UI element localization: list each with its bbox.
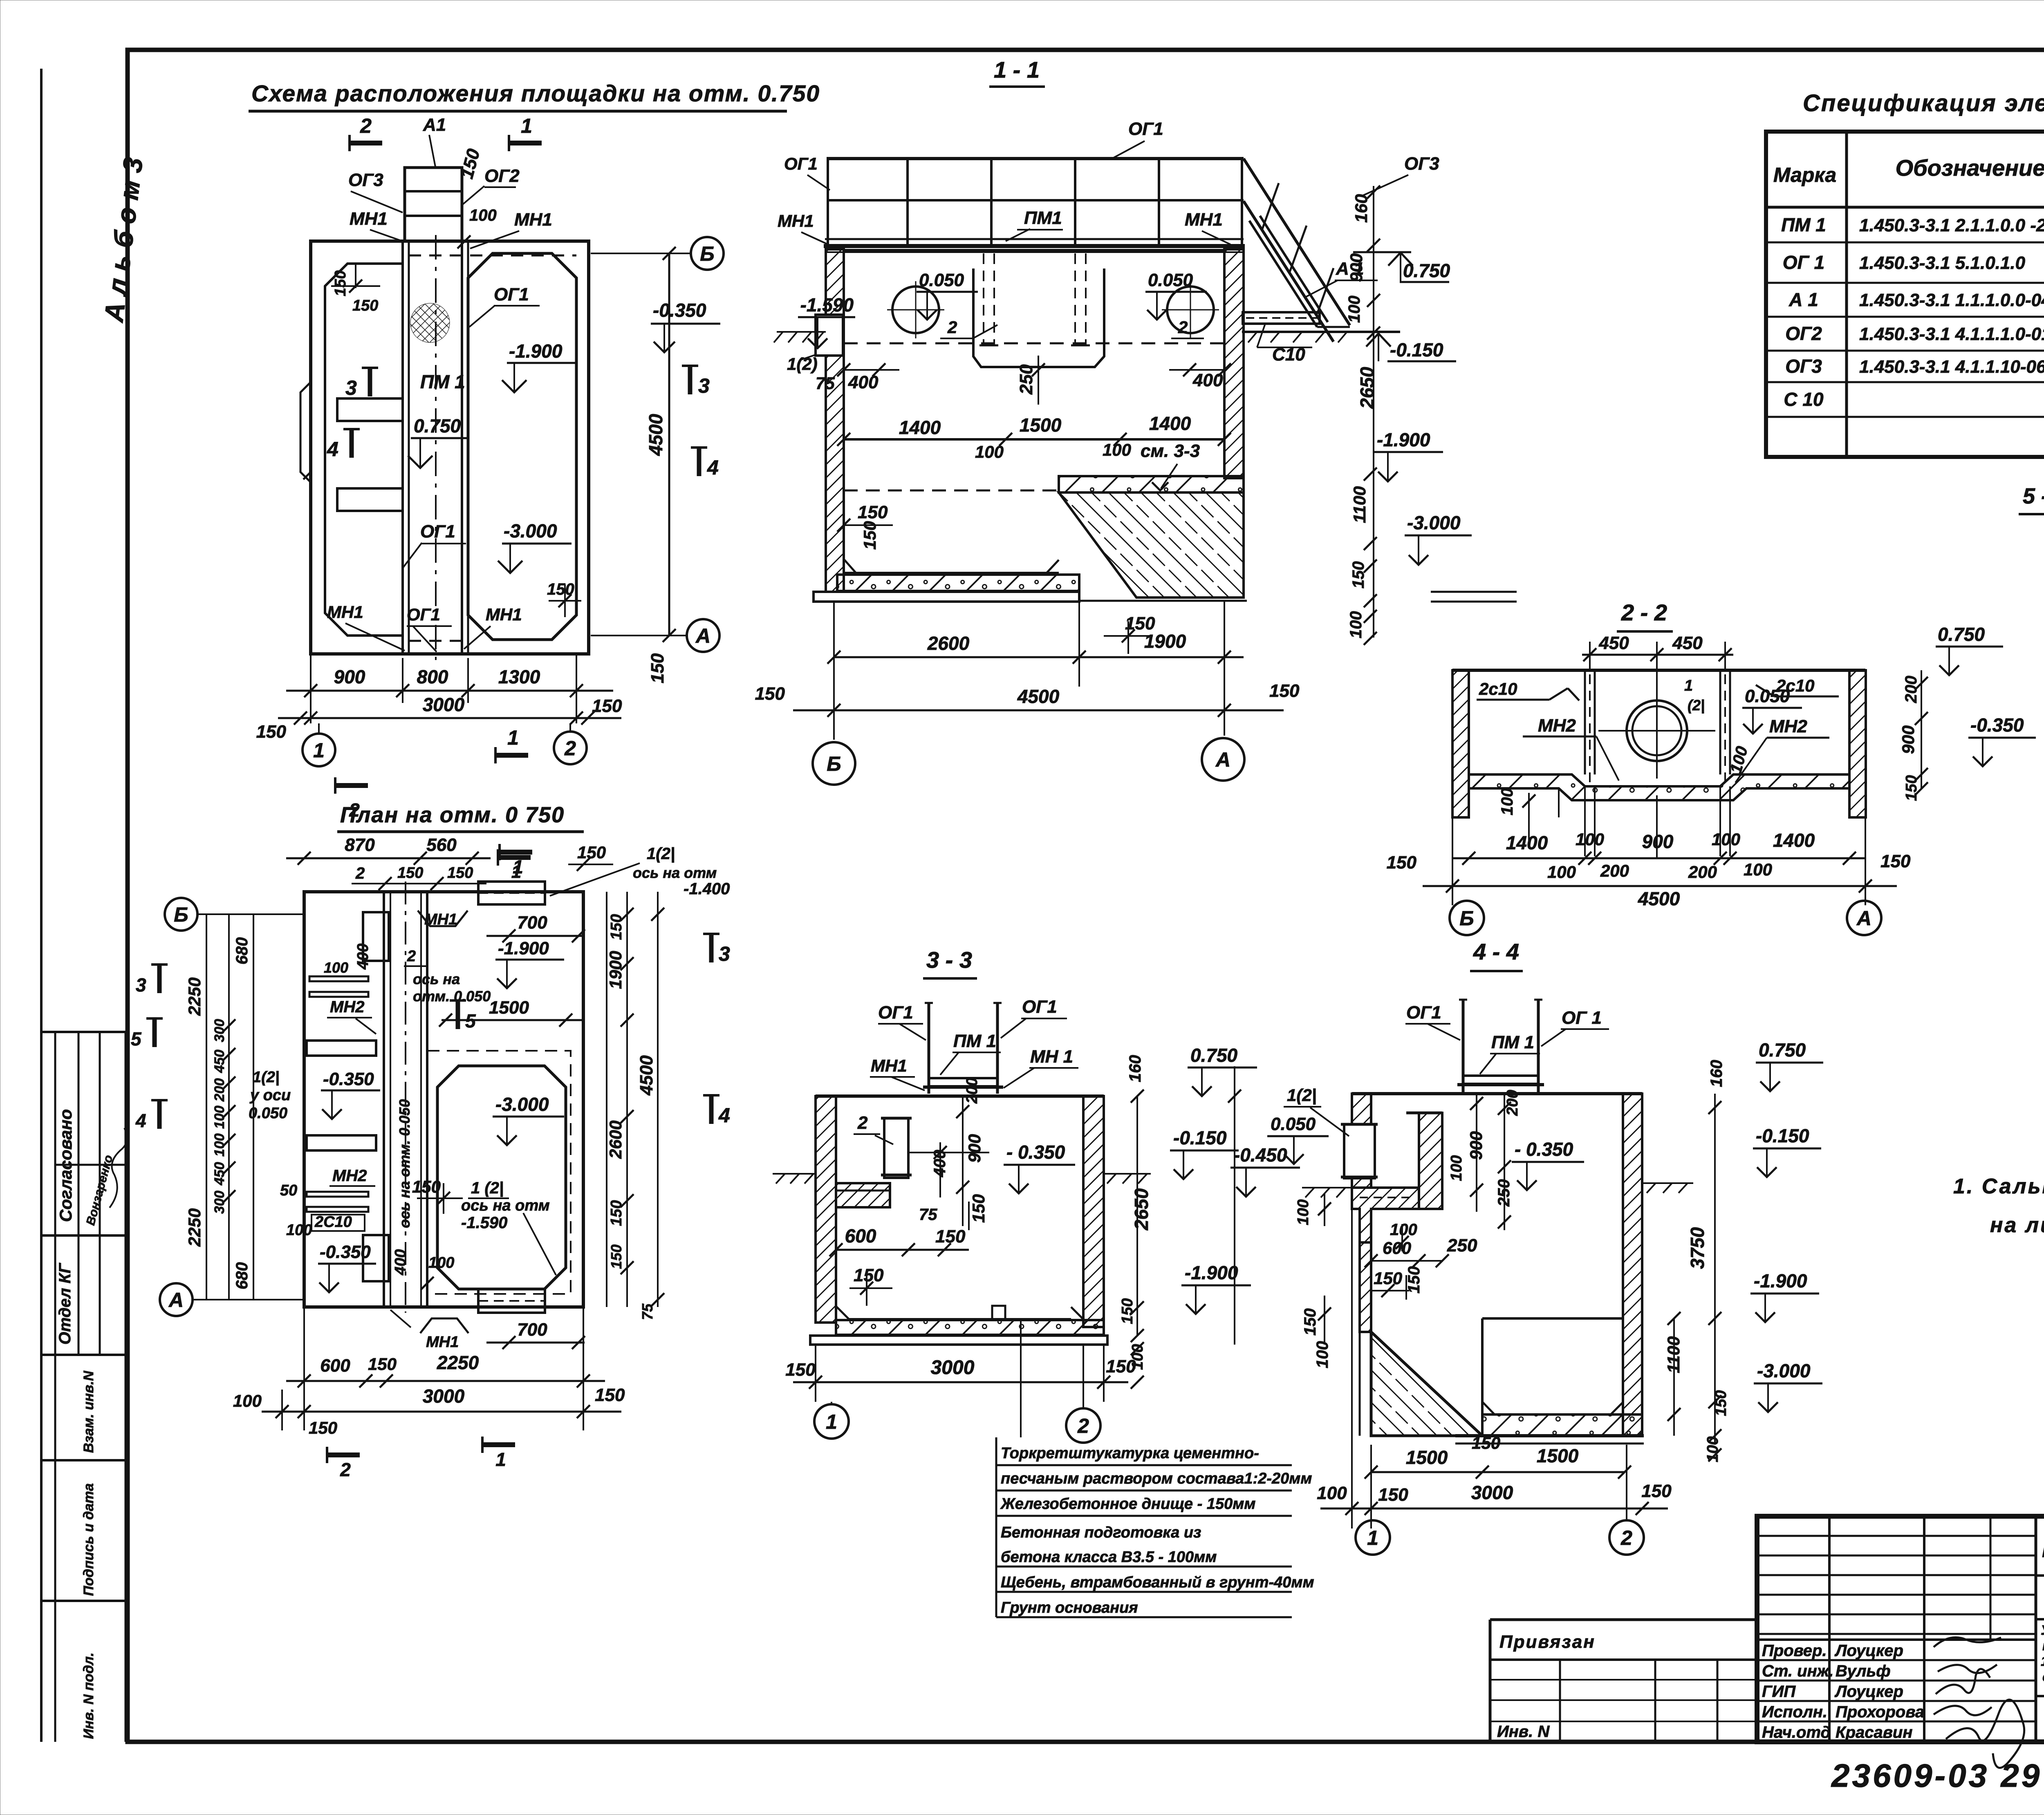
1-1 upper floor line (844, 438, 1224, 441)
svg-text:250: 250 (1495, 1179, 1513, 1207)
svg-text:100: 100 (1576, 830, 1604, 849)
plan top dashed platform edge (409, 255, 576, 257)
4-4 ground hatch left (1302, 1188, 1352, 1197)
plan horiz bars left pit (337, 398, 403, 421)
svg-text:см. 3-3: см. 3-3 (1141, 441, 1200, 461)
2-2 extension verticals to chain (1585, 786, 1730, 858)
3-3 right elevation chain (1234, 1066, 1235, 1345)
svg-text:А: А (695, 624, 710, 647)
svg-text:0.050: 0.050 (1148, 270, 1193, 290)
svg-text:0.050: 0.050 (1271, 1114, 1316, 1134)
svg-text:680: 680 (233, 937, 251, 965)
svg-text:3000: 3000 (1471, 1482, 1513, 1503)
title block right horizontals (2036, 1574, 2044, 1577)
svg-text:4500: 4500 (1017, 686, 1060, 707)
svg-text:800: 800 (417, 666, 448, 687)
svg-text:23609-03 29: 23609-03 29 (1831, 1757, 2042, 1794)
svg-text:4: 4 (707, 456, 719, 479)
svg-text:Привязан: Привязан (1499, 1632, 1596, 1652)
svg-text:100: 100 (428, 1254, 454, 1271)
bplan right chamber dashed offset (427, 1051, 571, 1294)
svg-text:1.450.3-3.1 5.1.0.1.0: 1.450.3-3.1 5.1.0.1.0 (1859, 253, 2026, 273)
plan bottom dim chain 2 (278, 717, 621, 719)
svg-text:-1.900: -1.900 (509, 340, 563, 362)
svg-text:300: 300 (212, 1191, 227, 1214)
1-1 railing posts (828, 159, 1242, 245)
svg-text:ОГ2: ОГ2 (484, 166, 520, 186)
svg-text:2: 2 (340, 1459, 351, 1480)
plan stair shaft walls (401, 241, 404, 654)
svg-text:1400: 1400 (1506, 832, 1548, 853)
svg-text:МН1: МН1 (778, 211, 814, 231)
bplan section mark 1 top (500, 844, 532, 877)
svg-text:150: 150 (447, 864, 473, 882)
svg-text:4: 4 (327, 438, 338, 461)
svg-text:Бетонная подготовка из: Бетонная подготовка из (1001, 1524, 1201, 1541)
svg-text:150: 150 (595, 1385, 625, 1405)
svg-text:0.750: 0.750 (1938, 624, 1985, 645)
svg-text:МН1: МН1 (514, 210, 552, 230)
svg-text:450: 450 (212, 1050, 227, 1073)
svg-text:ОГ 1: ОГ 1 (1783, 252, 1824, 273)
svg-text:250: 250 (1016, 364, 1036, 395)
title block staff rows (1757, 1660, 2036, 1721)
svg-text:900: 900 (1898, 725, 1918, 754)
3-3 pipe stub (884, 1118, 908, 1178)
ground hatch left of 1-1 (774, 332, 826, 342)
svg-text:1: 1 (511, 862, 521, 882)
4-4 plinth (1455, 1434, 1644, 1437)
svg-text:1(2|: 1(2| (1287, 1085, 1316, 1105)
svg-text:Подпись и дата: Подпись и дата (81, 1483, 96, 1596)
svg-text:100: 100 (233, 1391, 262, 1410)
4-4 axis circles (1356, 1520, 1390, 1555)
svg-text:1(2|: 1(2| (647, 845, 675, 863)
3-3 small stub on floor (992, 1306, 1005, 1320)
svg-text:-0.150: -0.150 (1390, 339, 1443, 360)
svg-text:бетона класса В3.5 - 100м: бетона класса В3.5 - 100мм (1001, 1549, 1217, 1566)
svg-text:100: 100 (324, 959, 348, 976)
bplan left pit items (363, 912, 389, 961)
svg-text:1900: 1900 (1144, 631, 1186, 652)
svg-text:2С10: 2С10 (314, 1213, 352, 1231)
svg-text:Б: Б (827, 752, 841, 775)
svg-text:150: 150 (755, 684, 785, 704)
1-1 center trough channels (973, 269, 1104, 367)
2-2 axis circles (1450, 901, 1484, 935)
svg-text:450: 450 (1672, 633, 1703, 653)
svg-text:МН2: МН2 (1538, 716, 1576, 736)
svg-text:ОГ1: ОГ1 (784, 154, 818, 173)
svg-text:ПМ1: ПМ1 (1024, 208, 1062, 228)
svg-text:150: 150 (592, 696, 622, 716)
svg-text:2: 2 (349, 799, 360, 821)
bplan bottom dim chain2 (262, 1411, 621, 1413)
svg-text:Грунт основания: Грунт основания (1001, 1599, 1138, 1616)
svg-text:- 0.350: - 0.350 (1006, 1141, 1065, 1163)
svg-text:МН2: МН2 (1769, 716, 1807, 736)
svg-text:680: 680 (233, 1262, 251, 1289)
plan right chamber chamfered (468, 253, 576, 640)
3-3 ground hatch left (773, 1174, 816, 1184)
2-2 pipe crosshair (1598, 670, 1715, 779)
svg-text:150: 150 (860, 521, 879, 550)
svg-text:ось на отм: ось на отм (633, 864, 717, 881)
bplan label МН1 bottom (420, 1318, 468, 1333)
svg-text:4: 4 (135, 1110, 146, 1131)
svg-text:150: 150 (577, 843, 606, 862)
svg-text:МН1: МН1 (871, 1056, 907, 1075)
paper edge left line (40, 69, 43, 1742)
svg-text:150: 150 (858, 502, 888, 522)
4-4 right wall (1623, 1094, 1642, 1436)
svg-text:4: 4 (718, 1104, 730, 1127)
bplan dim 700 top (486, 935, 585, 937)
svg-text:Обозначение: Обозначение (1896, 155, 2044, 181)
bplan label МН1 top w/ bracket (418, 911, 468, 926)
svg-text:150: 150 (368, 1354, 397, 1374)
svg-text:1: 1 (495, 1449, 506, 1470)
bplan right chamber chamfered (437, 1066, 566, 1289)
svg-text:100: 100 (1313, 1341, 1331, 1368)
svg-text:ПМ 1: ПМ 1 (1781, 214, 1826, 235)
svg-text:100: 100 (286, 1222, 312, 1239)
4-4 bottom dims (1371, 1471, 1625, 1473)
1-1 pipe circle left (892, 286, 939, 333)
svg-text:200: 200 (212, 1078, 227, 1102)
svg-text:ОГ1: ОГ1 (407, 605, 440, 624)
svg-text:МН1: МН1 (327, 602, 363, 622)
bplan shaft walls (383, 892, 385, 1307)
svg-text:100: 100 (1295, 1200, 1312, 1225)
svg-text:17тыс. м³/сут. самотечная пода: 17тыс. м³/сут. самотечная подача (2041, 1654, 2044, 1669)
section mark 1 (top) (509, 114, 542, 151)
3-3 left wall (816, 1096, 836, 1323)
svg-text:Б: Б (1459, 907, 1474, 930)
svg-text:150: 150 (1374, 1269, 1402, 1288)
svg-text:у оси: у оси (249, 1087, 291, 1104)
svg-text:1: 1 (1684, 677, 1693, 694)
svg-text:ось на отм: ось на отм (461, 1197, 550, 1214)
svg-text:1.450.3-3.1 4.1.1.1.0-01: 1.450.3-3.1 4.1.1.1.0-01 (1859, 324, 2044, 344)
svg-text:3: 3 (345, 376, 357, 399)
svg-text:900: 900 (1642, 831, 1674, 852)
bplan section marks bottom (327, 1447, 360, 1480)
svg-text:2600: 2600 (606, 1121, 625, 1159)
svg-text:700: 700 (517, 913, 547, 933)
svg-text:МН1: МН1 (424, 911, 457, 928)
plan shaft axis dash-dot (435, 235, 437, 660)
svg-text:200: 200 (1600, 861, 1629, 880)
svg-text:2250: 2250 (185, 1209, 204, 1247)
svg-text:ГИП: ГИП (1762, 1683, 1796, 1701)
4-4 railing posts (1462, 1000, 1465, 1094)
svg-text:сточных вод на фильтрацию: сточных вод на фильтрацию (2042, 1669, 2044, 1684)
svg-text:-0.350: -0.350 (653, 300, 706, 321)
axis circle А (687, 619, 719, 652)
bplan dim 700 bottom (486, 1342, 585, 1344)
3-3 right wall (1083, 1096, 1104, 1327)
svg-text:3000: 3000 (931, 1357, 975, 1379)
bplan mark 5 (450, 1000, 476, 1032)
svg-text:на листе 20: на листе 20 (1990, 1213, 2044, 1237)
bplan top protrusion МН (478, 882, 545, 904)
svg-text:А: А (1856, 907, 1871, 930)
svg-text:-3.000: -3.000 (504, 520, 557, 542)
svg-text:Лоуцкер: Лоуцкер (1834, 1683, 1903, 1701)
svg-text:1: 1 (507, 726, 519, 749)
svg-text:3: 3 (136, 974, 146, 996)
bplan right section marks 3,4 (703, 934, 730, 965)
svg-text:150: 150 (608, 1244, 625, 1269)
svg-text:100: 100 (1390, 1221, 1417, 1239)
svg-text:2: 2 (947, 318, 957, 337)
svg-text:150: 150 (1903, 775, 1920, 801)
svg-text:Торкретштукатурка цементно-: Торкретштукатурка цементно- (1001, 1445, 1259, 1462)
bplan axis circles left (165, 898, 197, 931)
svg-text:1(2|: 1(2| (253, 1069, 280, 1086)
svg-text:200: 200 (1504, 1090, 1521, 1116)
bplan section mark 1 small top (498, 849, 531, 882)
svg-text:75: 75 (816, 374, 835, 393)
1-1 pipe circle right (1167, 286, 1214, 333)
svg-text:4 - 4: 4 - 4 (1473, 939, 1519, 965)
svg-text:1 - 1: 1 - 1 (994, 57, 1040, 83)
svg-text:ОГ3: ОГ3 (1404, 154, 1439, 174)
3-3 tank top line (816, 1094, 1104, 1098)
svg-text:150: 150 (1880, 851, 1911, 871)
svg-text:-3.000: -3.000 (1757, 1360, 1811, 1381)
svg-text:МН1: МН1 (1185, 210, 1223, 230)
svg-text:-0.150: -0.150 (1756, 1125, 1809, 1146)
svg-text:150: 150 (1712, 1390, 1730, 1416)
svg-text:150: 150 (412, 1177, 441, 1196)
svg-text:1500: 1500 (1406, 1447, 1448, 1468)
section mark 1 bottom (495, 726, 528, 763)
svg-text:1400: 1400 (1773, 830, 1815, 851)
svg-text:1300: 1300 (498, 666, 540, 687)
spec table grid (1766, 132, 2044, 457)
2-2 right elevation chain (1921, 670, 1922, 789)
svg-text:150: 150 (1269, 681, 1300, 701)
1-1 stair rungs (1262, 183, 1334, 314)
svg-text:200: 200 (1688, 862, 1717, 882)
svg-text:700: 700 (517, 1320, 547, 1340)
axis circle Б (691, 237, 724, 270)
svg-text:-0.350: -0.350 (320, 1242, 371, 1262)
signatures squiggles (1934, 1637, 2001, 1647)
svg-text:-3.000: -3.000 (495, 1094, 549, 1115)
svg-text:2: 2 (360, 114, 372, 137)
svg-text:4500: 4500 (645, 414, 666, 456)
left stamp column grid (41, 1032, 126, 1742)
svg-text:1.450.3-3.1 2.1.1.0.0 -28: 1.450.3-3.1 2.1.1.0.0 -28 (1859, 215, 2044, 235)
svg-text:0.050: 0.050 (919, 270, 964, 290)
svg-text:Установка глубокой очистки сто: Установка глубокой очистки сточных вод (2041, 1623, 2044, 1638)
svg-text:Щебень, втрамбованный в грунт-: Щебень, втрамбованный в грунт-40мм (1001, 1574, 1314, 1591)
2-2 channel dashed pairs (1585, 670, 1730, 774)
svg-text:200: 200 (964, 1078, 981, 1104)
svg-text:100: 100 (1547, 862, 1576, 882)
4-4 ground hatch right (1642, 1183, 1693, 1193)
3-3 axis circles (814, 1404, 849, 1439)
svg-text:Провер.: Провер. (1762, 1642, 1827, 1660)
1-1 lower chamber floor & chamfers (844, 561, 1059, 572)
svg-text:Марка: Марка (1773, 163, 1836, 186)
svg-text:ОГ1: ОГ1 (878, 1003, 913, 1023)
svg-text:0.050: 0.050 (1745, 686, 1790, 706)
4-4 left lower wall strip (1360, 1242, 1371, 1332)
svg-text:2650: 2650 (1356, 367, 1378, 409)
svg-text:-0.450: -0.450 (1234, 1144, 1287, 1166)
svg-text:3: 3 (698, 374, 710, 397)
svg-text:Нач.отд: Нач.отд (1762, 1723, 1831, 1741)
3-3 railing posts (928, 1003, 930, 1094)
svg-text:2600: 2600 (927, 633, 970, 654)
4-4 ramp wedge wide hatch (1371, 1332, 1482, 1436)
3-3 bottom dims (793, 1381, 1128, 1383)
4-4 right elevation chain (1714, 1094, 1716, 1445)
cross-hatch blob (410, 303, 450, 342)
1-1 right wall hatched (1224, 249, 1244, 478)
3-3 dims interior: 200 900 400 (962, 1096, 964, 1226)
4-4 platform ПМ1 (1463, 1076, 1538, 1084)
svg-text:2: 2 (564, 737, 576, 760)
svg-text:100: 100 (1317, 1483, 1347, 1503)
4-4 bench line right chamber (1482, 1317, 1623, 1320)
svg-text:1100: 1100 (1350, 486, 1369, 523)
svg-text:-1.900: -1.900 (498, 938, 549, 958)
2-2 bottom dim chain 1 (1452, 857, 1865, 859)
svg-text:150: 150 (397, 864, 423, 882)
svg-text:2: 2 (355, 864, 365, 882)
axis circle 1 (303, 734, 335, 766)
plan left pit inner outline (325, 264, 403, 636)
svg-text:75: 75 (919, 1206, 937, 1224)
svg-text:ПМ 1: ПМ 1 (420, 371, 465, 392)
section marks T3 T4 right of plan (682, 366, 710, 397)
1-1 lower chamber dashed bench (844, 490, 1059, 492)
svg-text:ОГ 1: ОГ 1 (1562, 1008, 1602, 1028)
svg-text:5: 5 (131, 1028, 142, 1050)
title block outer (1757, 1516, 2044, 1742)
svg-text:Ст. инж.: Ст. инж. (1762, 1662, 1833, 1680)
svg-text:1.450.3-3.1 4.1.1.10-06: 1.450.3-3.1 4.1.1.10-06 (1859, 357, 2044, 377)
2-2 pipe double circle (1627, 700, 1687, 761)
svg-text:Отдел КГ: Отдел КГ (56, 1262, 74, 1345)
svg-text:1 (2|: 1 (2| (471, 1179, 504, 1197)
svg-text:75: 75 (639, 1303, 656, 1320)
svg-text:2 - 2: 2 - 2 (1621, 600, 1667, 625)
4-4 pipe stub left (1344, 1124, 1375, 1178)
svg-text:на фильтрах производительность: на фильтрах производительностью (2042, 1638, 2044, 1653)
1-1 interior top line (844, 249, 1224, 251)
1-1 bottom slab (837, 575, 1079, 591)
svg-text:100: 100 (1712, 830, 1740, 849)
1-1 railing mid rail (827, 199, 1244, 201)
svg-text:1500: 1500 (1020, 414, 1062, 436)
plan bottom dim chain 1 (286, 690, 613, 692)
svg-text:2650: 2650 (1131, 1188, 1152, 1231)
svg-text:200: 200 (1902, 676, 1920, 703)
4-4 pit floor and slab (1482, 1402, 1623, 1414)
pipe stub through left wall 1(2) (816, 315, 843, 356)
4-4 ledge slab (1352, 1188, 1419, 1242)
svg-text:-1.400: -1.400 (684, 880, 730, 898)
stamp signature (110, 1128, 127, 1208)
svg-text:Железобетонное днище - 150: Железобетонное днище - 150мм (1000, 1495, 1255, 1513)
svg-text:3000: 3000 (423, 694, 465, 715)
svg-text:МН1: МН1 (426, 1334, 459, 1351)
svg-text:МН2: МН2 (332, 1167, 367, 1185)
svg-text:450: 450 (1598, 633, 1629, 653)
svg-text:0.750: 0.750 (1190, 1045, 1238, 1066)
svg-text:Исполн.: Исполн. (1762, 1703, 1827, 1721)
svg-text:Б: Б (174, 903, 188, 926)
bplan right dim verticals (606, 892, 607, 1307)
svg-text:ОГ3: ОГ3 (348, 170, 383, 190)
svg-text:400: 400 (392, 1249, 409, 1276)
svg-text:2: 2 (857, 1113, 868, 1133)
3-3 plinth (810, 1336, 1107, 1345)
svg-text:А: А (1215, 748, 1230, 771)
svg-text:ось на отм. 0.050: ось на отм. 0.050 (396, 1099, 413, 1228)
svg-text:150: 150 (1472, 1433, 1500, 1452)
svg-text:0.750: 0.750 (1759, 1039, 1806, 1061)
svg-text:3: 3 (719, 942, 730, 965)
svg-text:150: 150 (1349, 561, 1367, 589)
bplan top dim chain 870 560 (286, 857, 491, 859)
bplan bottom dim chain1 (286, 1380, 605, 1382)
plan outer wall (311, 241, 589, 654)
C10 channel right (1243, 312, 1320, 324)
svg-text:А: А (168, 1289, 184, 1311)
svg-text:Взам. инв.N: Взам. инв.N (81, 1370, 96, 1453)
svg-text:Инв. N: Инв. N (1497, 1723, 1550, 1741)
1-1 plinth band (814, 592, 1079, 602)
svg-text:100: 100 (975, 442, 1004, 461)
svg-text:Согласовано: Согласовано (56, 1109, 75, 1222)
svg-text:-1.900: -1.900 (1754, 1270, 1807, 1291)
3-3 bottom slab (836, 1320, 1104, 1335)
svg-text:ОГ3: ОГ3 (1785, 356, 1822, 377)
svg-text:100: 100 (469, 206, 497, 224)
svg-text:100: 100 (1498, 788, 1516, 815)
svg-text:1400: 1400 (1149, 413, 1191, 434)
svg-text:МН1: МН1 (350, 209, 388, 229)
svg-text:1: 1 (826, 1410, 837, 1433)
svg-text:-1.590: -1.590 (800, 294, 854, 316)
svg-text:2250: 2250 (185, 978, 204, 1016)
svg-text:4500: 4500 (1638, 888, 1680, 909)
svg-text:400: 400 (1192, 370, 1223, 390)
svg-text:ПМ 1: ПМ 1 (953, 1031, 996, 1051)
svg-text:ПМ 1: ПМ 1 (1491, 1032, 1534, 1052)
axis circle Б 1-1 (813, 742, 855, 785)
svg-text:150: 150 (352, 297, 378, 314)
1-1 concrete band upper-right (1059, 476, 1244, 492)
svg-text:1.450.3-3.1 1.1.1.0.0-04: 1.450.3-3.1 1.1.1.0.0-04 (1859, 290, 2044, 310)
svg-text:1500: 1500 (1537, 1445, 1579, 1466)
1-1 ramp wide hatch (1059, 492, 1244, 598)
3-3 leader down to layers table (1020, 1319, 1022, 1437)
svg-text:100: 100 (1448, 1155, 1465, 1181)
svg-text:4500: 4500 (637, 1055, 657, 1096)
svg-text:тп902-2-467.89: тп902-2-467.89 (2042, 1538, 2044, 1562)
svg-text:100: 100 (212, 1106, 227, 1129)
svg-text:600: 600 (1383, 1238, 1411, 1258)
3-3 ground hatch right (1104, 1174, 1151, 1184)
